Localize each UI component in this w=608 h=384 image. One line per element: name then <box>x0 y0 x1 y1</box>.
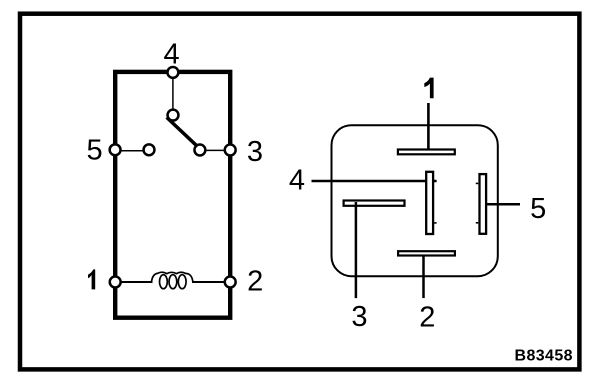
terminal slot 2 <box>398 251 455 255</box>
wire coil to pin2 <box>192 281 230 283</box>
wire pin5 to NC contact <box>115 150 149 152</box>
terminal slot 5 <box>480 174 487 234</box>
terminal pin 2 (circle) <box>225 277 236 288</box>
terminal pin 3 (circle) <box>225 145 236 156</box>
leader line 4 <box>312 180 437 183</box>
svg-text:2: 2 <box>247 265 263 297</box>
slot 5 key ticks <box>476 182 479 184</box>
wire arm contact to pin3 <box>200 149 230 151</box>
terminal pin 5 (circle) <box>110 144 121 155</box>
svg-text:4: 4 <box>164 38 180 70</box>
terminal slot 3 <box>344 201 405 206</box>
leader line 2 <box>422 256 425 299</box>
leader line 3 (drawn over slot 3) <box>355 202 358 298</box>
relay body outline (schematic) <box>115 72 230 318</box>
label pin 1 (pin view) <box>424 78 433 99</box>
terminal pin 1 (circle) <box>110 277 121 288</box>
switch arm (movable contact) <box>167 117 198 146</box>
label pin 1 (schematic) <box>88 269 95 289</box>
terminal slot 1 <box>398 150 455 155</box>
relay base outline (pin view) <box>332 125 498 276</box>
pivot contact circle <box>168 110 179 121</box>
terminal pin 4 (circle) <box>167 67 178 78</box>
svg-text:2: 2 <box>419 302 435 334</box>
svg-text:4: 4 <box>289 165 305 197</box>
leader line 1 <box>427 103 430 149</box>
svg-text:3: 3 <box>351 301 367 333</box>
terminal slot 4 <box>426 172 433 234</box>
leader line 5 <box>487 203 521 206</box>
svg-text:3: 3 <box>247 136 263 168</box>
svg-text:5: 5 <box>530 193 546 225</box>
wire pin4 to pivot <box>172 72 174 115</box>
arm end contact circle <box>194 145 205 156</box>
NC contact circle <box>144 144 155 155</box>
coil L (relay winding) <box>152 272 193 289</box>
svg-text:5: 5 <box>87 135 103 167</box>
slot 4 key tick <box>434 222 437 224</box>
svg-text:B83458: B83458 <box>515 348 573 365</box>
wire pin1 to coil <box>115 281 153 283</box>
